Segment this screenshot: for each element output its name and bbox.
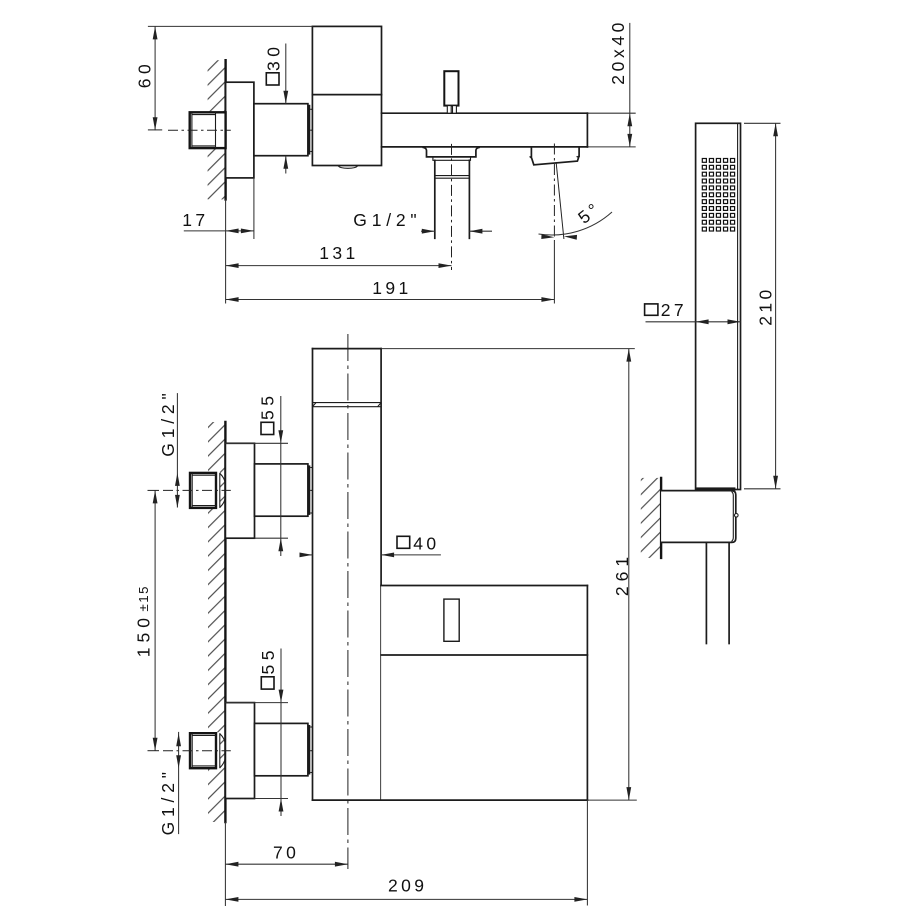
lower inlet centerline [163,750,231,752]
upper block end cap [308,465,313,515]
5 degree arc [539,212,613,235]
wall hatch (bracket) [641,478,661,558]
dimension 261 [381,349,635,800]
tub filler centerline [451,144,453,270]
dimension 20x40 [608,19,632,147]
upper inlet nipple G1/2 [189,472,226,509]
hand shower side edge line [737,123,739,489]
tub filler thread tube [435,160,470,238]
label G1/2 inch (upper) [158,389,180,508]
spout bar bottom edge [382,146,588,148]
lower inlet nipple G1/2 [189,732,226,769]
dimension square 30 [264,43,289,174]
inlet centerline (top view) [148,129,162,131]
wall hatch (top view) [208,60,226,199]
mixer body (side) [312,26,381,165]
spout centerline [553,144,555,242]
inlet nipple G1/2 (side) [189,111,226,148]
aerator bump [338,166,358,169]
lower escutcheon plate square 55 [225,703,254,799]
shower hose [705,542,707,643]
svg-text:27: 27 [661,300,687,320]
spout housing box [381,586,587,801]
svg-text:20x40: 20x40 [608,19,628,85]
SECTION: bottom front view [133,334,636,906]
svg-text:60: 60 [134,60,154,88]
svg-text:G1/2": G1/2" [158,389,178,457]
wall face line (top view) [224,60,226,199]
dimension 209 [225,800,587,905]
lower stop valve block [255,723,308,775]
svg-text:261: 261 [612,552,632,596]
svg-text:G1/2": G1/2" [158,767,178,835]
svg-text:17: 17 [182,210,208,230]
svg-text:30: 30 [264,43,284,71]
label square 55 (upper) [225,392,288,556]
svg-text:55: 55 [257,392,277,420]
lower block end cap [308,725,313,775]
spout bar end cap [586,113,588,147]
label square 40 [300,533,441,557]
handle slot [444,599,459,641]
dimension 131 [226,243,452,268]
hand shower body [696,123,741,489]
tub filler connector flange [423,147,479,157]
tilting spout outlet 5deg [531,147,580,165]
wall face line (bracket) [660,478,662,558]
dimension 210 [744,123,781,489]
svg-text:210: 210 [756,286,776,325]
spout tilted axis line [556,162,564,239]
bracket set screw [735,514,739,518]
SECTION: wall bracket and hose [641,478,738,644]
dimension 191 [226,278,555,302]
dimension 150 pm 15 [133,490,159,750]
label G1/2 inch (lower) [158,732,181,836]
valve stem square 30 (side) [254,104,308,156]
wall hatch (front view) [208,422,225,822]
label square 27 [645,300,741,324]
svg-text:150: 150 [133,613,153,657]
riser column square 40 [313,349,382,800]
shower bracket body [661,491,736,543]
bracket inner edge [732,492,734,542]
column centerline [347,334,349,869]
stem end cap [308,105,313,155]
column joint lines [313,403,382,407]
svg-text:40: 40 [413,533,439,553]
svg-text:131: 131 [319,243,358,263]
svg-text:±15: ±15 [136,585,151,611]
svg-text:G1/2": G1/2" [353,210,421,230]
wall face line (front view) [224,422,226,822]
upper stop valve block [255,464,308,516]
body joint line [312,94,381,96]
bottom edge line with extension [313,799,588,801]
upper inlet centerline [148,489,160,491]
dimension 17 [182,178,254,304]
svg-text:209: 209 [388,876,427,896]
diverter knob [444,71,458,113]
SECTION: hand shower front view [645,123,781,491]
upper escutcheon plate square 55 [225,443,254,538]
SECTION: top side view [134,19,635,303]
dimension 60 [134,26,312,130]
svg-text:70: 70 [273,843,299,863]
dimension 70 [225,843,348,867]
spout bar 20x40 top edge [382,112,588,114]
label square 55 (lower) [225,646,288,816]
svg-text:191: 191 [372,278,411,298]
hand shower bottom cap [696,487,735,490]
escutcheon flange (side) [226,82,254,178]
label G1/2 inch (top view) [353,210,492,233]
svg-text:55: 55 [258,646,278,674]
spray nozzle grid [702,159,734,232]
